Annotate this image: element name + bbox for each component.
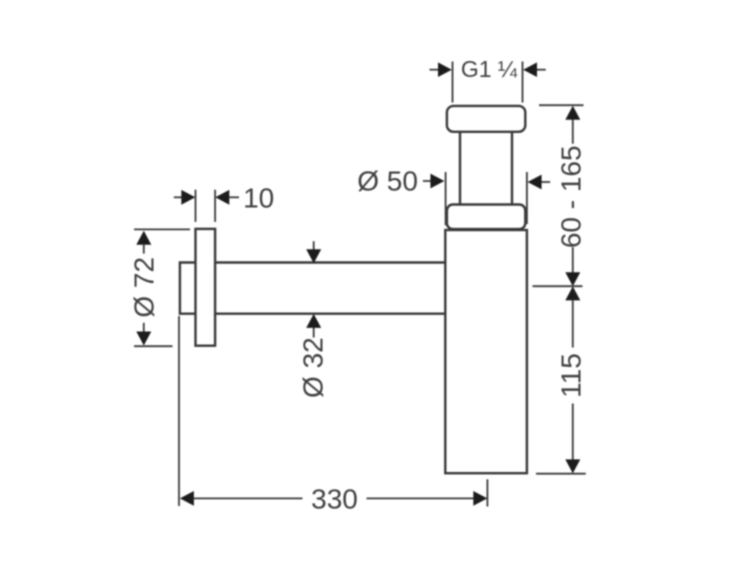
dimension diameter 50 extension line left [445,172,447,225]
right dimension middle down arrow [565,272,580,286]
dimension 330 right arrow [367,491,488,506]
dimension G 1 1/4 extension line right [522,62,524,103]
dimension diameter 72 top arrow up [136,231,151,254]
dimension diameter 72 bottom extension line [134,345,173,347]
svg-text:115: 115 [555,353,586,398]
top escutcheon flange [447,106,525,132]
right dimension top extension line [539,104,584,106]
dimension 10 right arrow [215,190,239,205]
svg-text:330: 330 [311,484,358,515]
dimension label 10 [243,183,274,214]
right dimension top arrow up [565,106,580,144]
svg-text:10: 10 [243,183,274,214]
dimension G 1 1/4 right arrow [523,62,546,77]
right dimension middle tick line [533,285,583,287]
svg-text:Ø 32: Ø 32 [298,337,329,398]
svg-text:Ø 72: Ø 72 [128,257,159,318]
dimension 10 extension line left [195,190,197,222]
horizontal outlet pipe [180,263,445,314]
dimension label diameter 72 [128,257,159,318]
dimension diameter 50 left arrow [423,174,445,189]
dimension label 330 [311,484,358,515]
dimension diameter 32 top arrow down [306,241,321,263]
right dimension bottom extension line [536,473,586,475]
dimension label diameter 50 [357,165,418,196]
vertical inlet pipe [460,132,512,205]
svg-text:60 - 165: 60 - 165 [555,145,586,248]
trap body cup [445,230,527,473]
dimension label 60 - 165 [555,145,586,248]
dimension 330 extension line right [486,479,488,506]
dimension 330 extension line left [178,316,180,506]
dimension diameter 72 top extension line [134,228,190,230]
dimension G 1 1/4 extension line left [452,62,454,103]
lower escutcheon flange [447,205,525,230]
wall flange plate [196,229,216,346]
dimension diameter 32 bottom arrow up [306,314,321,338]
right dimension line segment below 115 [572,404,574,460]
dimension G 1 1/4 left arrow [430,62,452,77]
dimension 10 extension line right [214,190,216,222]
dimension diameter 50 extension line right [526,172,528,224]
dimension label diameter 32 [298,337,329,398]
right dimension middle up arrow [565,286,580,347]
dimension 10 left arrow [174,190,196,205]
dimension 330 left arrow [180,491,303,506]
dimension label G 1 1/4 [461,56,518,82]
dimension diameter 72 bottom arrow down [136,323,151,346]
svg-text:G1 ¼: G1 ¼ [461,56,518,82]
svg-text:Ø 50: Ø 50 [357,165,418,196]
right dimension line segment above middle [572,247,574,272]
dimension diameter 50 right arrow [528,175,551,190]
right dimension bottom arrow down [565,459,580,473]
dimension label 115 [555,353,586,398]
